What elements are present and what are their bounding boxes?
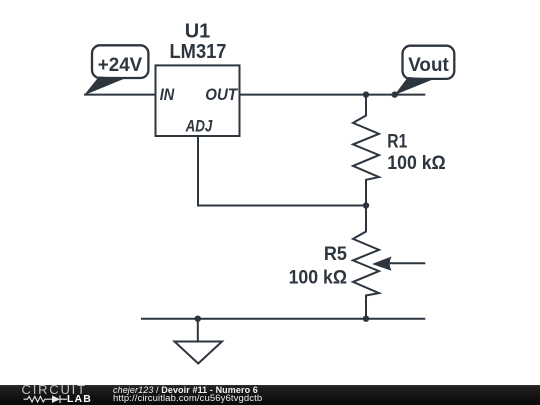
svg-text:OUT: OUT	[205, 85, 238, 104]
node at Vout tail	[392, 91, 398, 97]
CircuitLab logo symbol (resistor + diode)	[23, 395, 69, 404]
wire OUT	[240, 94, 426, 96]
node at R5 bottom	[363, 316, 369, 322]
ground triangle	[175, 342, 223, 364]
potentiometer R5 wiper arrowhead	[372, 257, 392, 271]
svg-text:100 kΩ: 100 kΩ	[387, 153, 445, 174]
svg-text:R5: R5	[324, 244, 348, 265]
svg-text:R1: R1	[387, 132, 407, 153]
node at ground junction	[195, 316, 201, 322]
ground stem	[197, 319, 199, 342]
flag Vout tail	[395, 77, 435, 95]
node at ADJ/R1/R5 junction	[363, 202, 369, 208]
wire ADJ horizontal	[197, 205, 366, 207]
svg-text:100 kΩ: 100 kΩ	[289, 268, 347, 289]
svg-text:IN: IN	[160, 85, 175, 104]
footer url line	[113, 394, 262, 404]
footer credit line	[113, 385, 258, 395]
svg-text:Vout: Vout	[408, 55, 449, 76]
flag +24V tail	[84, 77, 126, 96]
wire bottom rail	[141, 318, 425, 320]
footer bar	[0, 385, 540, 405]
IC U1 LM317 box	[156, 65, 240, 136]
svg-text:LM317: LM317	[170, 41, 227, 63]
svg-text:U1: U1	[185, 21, 211, 43]
potentiometer R5 body	[353, 206, 379, 319]
flag Vout rect	[403, 46, 455, 79]
resistor R1	[353, 95, 379, 206]
svg-text:+24V: +24V	[98, 55, 143, 76]
potentiometer R5 wiper wire	[389, 262, 425, 264]
node at OUT/R1 junction	[363, 91, 369, 97]
CircuitLab logo wordmark	[22, 383, 87, 396]
wire IN	[84, 94, 156, 96]
wire ADJ vertical	[197, 136, 199, 206]
flag +24V rect	[92, 45, 148, 78]
svg-text:ADJ: ADJ	[185, 117, 213, 136]
